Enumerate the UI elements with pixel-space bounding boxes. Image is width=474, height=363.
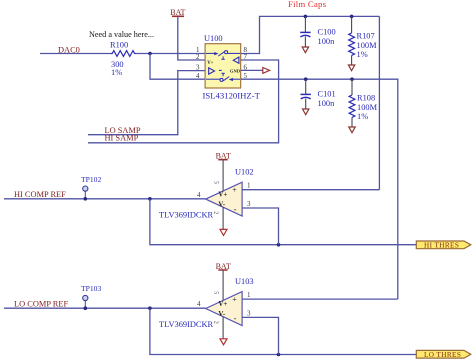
wire BAT to U103 pin5 <box>222 270 224 300</box>
ground under R108 <box>349 127 355 133</box>
wire U103 pin3 to bottom wire <box>242 317 278 354</box>
U102 gnd stub <box>222 207 224 229</box>
svg-text:LO THRES: LO THRES <box>424 351 461 359</box>
svg-text:2: 2 <box>212 211 218 214</box>
svg-text:-: - <box>234 314 237 323</box>
wire U100 pin8 to film-caps rail <box>241 16 380 53</box>
resistor R108 <box>351 79 353 95</box>
svg-text:3: 3 <box>247 200 251 208</box>
junction pin3 riser (U103) <box>277 353 281 357</box>
capacitor C101 <box>305 79 307 94</box>
svg-text:HI THRES: HI THRES <box>424 241 459 249</box>
wire LO COMP REF <box>4 307 206 309</box>
junction rail1-C100 <box>304 15 308 19</box>
junction rail2-R108 <box>350 77 354 81</box>
svg-text:HI SAMP: HI SAMP <box>105 134 139 143</box>
svg-text:100M: 100M <box>357 41 378 50</box>
svg-text:R107: R107 <box>357 32 375 41</box>
svg-text:TP103: TP103 <box>81 284 101 293</box>
resistor R100 <box>111 51 136 57</box>
U103 gnd stub <box>222 316 224 338</box>
junction rail2-C101 <box>304 77 308 81</box>
svg-text:C100: C100 <box>318 28 336 37</box>
svg-text:2: 2 <box>196 53 200 61</box>
wire U103 pin1 to vertical B <box>242 298 398 300</box>
svg-text:3: 3 <box>196 63 200 71</box>
wire junction down to pin4 <box>150 54 205 80</box>
wire HI COMP REF <box>4 198 206 200</box>
svg-text:1%: 1% <box>111 68 122 77</box>
port HI THRES <box>416 241 471 249</box>
junction pin3 riser <box>277 243 281 247</box>
svg-text:U102: U102 <box>235 168 254 177</box>
svg-text:R100: R100 <box>110 41 128 50</box>
svg-text:C101: C101 <box>318 90 336 99</box>
U100 internal IN1 buffer <box>209 68 215 74</box>
wire U100 pin6 stub <box>241 69 263 71</box>
svg-text:U100: U100 <box>204 34 223 43</box>
svg-text:LO COMP REF: LO COMP REF <box>14 299 68 308</box>
svg-text:4: 4 <box>197 191 201 199</box>
ground under R107 <box>348 65 354 71</box>
ground under C100 <box>302 47 308 53</box>
svg-text:V+: V+ <box>207 61 213 66</box>
svg-text:V-: V- <box>218 311 225 318</box>
port LO THRES <box>416 350 471 358</box>
wire LO SAMP to U100 pin3 <box>88 71 205 135</box>
op-amp U103 <box>206 292 242 326</box>
svg-text:V-: V- <box>218 201 225 208</box>
wire U102 pin1 to vertical A <box>242 189 379 191</box>
ground under C101 <box>303 109 309 115</box>
svg-text:1: 1 <box>247 291 251 299</box>
svg-text:5: 5 <box>212 181 218 184</box>
svg-text:V+: V+ <box>218 301 227 308</box>
wire rail1 down (vertical A) <box>378 16 380 189</box>
svg-text:4: 4 <box>197 300 201 308</box>
wire DAC0 to R100 <box>40 53 111 55</box>
svg-text:5: 5 <box>212 291 218 294</box>
resistor R107 <box>351 16 353 33</box>
svg-text:1%: 1% <box>357 50 368 59</box>
svg-text:+: + <box>232 186 237 195</box>
U100 internal bottom switch <box>206 73 240 81</box>
svg-text:TLV369IDCKR: TLV369IDCKR <box>159 211 214 220</box>
svg-text:+: + <box>232 295 237 304</box>
svg-text:R108: R108 <box>357 94 375 103</box>
svg-text:-: - <box>234 205 237 214</box>
svg-text:2: 2 <box>212 321 218 324</box>
junction <box>148 52 152 56</box>
capacitor C100 <box>304 16 306 32</box>
wire U100 pin5 rail2 <box>241 79 398 299</box>
U100 internal IN2 buffer <box>233 57 239 63</box>
svg-text:100n: 100n <box>318 99 336 108</box>
svg-text:V+: V+ <box>218 192 227 199</box>
U100 internal top switch <box>206 51 240 60</box>
wire BAT down to U100 pin2 <box>178 16 205 60</box>
wire HI SAMP right and up to pin7 <box>88 60 279 143</box>
junction HI COMP <box>148 197 152 201</box>
wire junction down and right to LO THRES <box>150 308 416 354</box>
svg-text:U103: U103 <box>235 277 254 286</box>
svg-text:100M: 100M <box>357 103 378 112</box>
svg-text:Need a value here...: Need a value here... <box>89 30 154 39</box>
svg-text:ISL43120IHZ-T: ISL43120IHZ-T <box>203 90 261 100</box>
svg-text:3: 3 <box>247 309 251 317</box>
svg-text:TP102: TP102 <box>81 175 101 184</box>
svg-text:HI COMP REF: HI COMP REF <box>14 190 66 199</box>
IC U100 body <box>205 44 241 88</box>
svg-text:Film Caps: Film Caps <box>288 0 327 9</box>
svg-text:1%: 1% <box>357 112 368 121</box>
svg-text:GND: GND <box>230 69 241 74</box>
wire BAT to U102 pin5 <box>222 160 224 191</box>
svg-text:1: 1 <box>247 182 251 190</box>
wire junction down and right to HI THRES <box>150 199 416 245</box>
wire U102 pin3 to bottom wire <box>242 208 278 245</box>
ground under U103 <box>220 339 227 345</box>
ground under U102 <box>220 229 227 235</box>
wire R100 to U100 pin1 <box>136 53 206 55</box>
junction LO COMP <box>148 306 152 310</box>
svg-text:TLV369IDCKR: TLV369IDCKR <box>159 320 214 329</box>
op-amp U102 <box>206 182 242 216</box>
U100 internal dash <box>219 69 222 71</box>
svg-text:4: 4 <box>196 72 200 80</box>
svg-text:100n: 100n <box>318 37 336 46</box>
junction rail1-R107 <box>350 15 354 19</box>
port arrow at pin6 <box>263 68 270 74</box>
